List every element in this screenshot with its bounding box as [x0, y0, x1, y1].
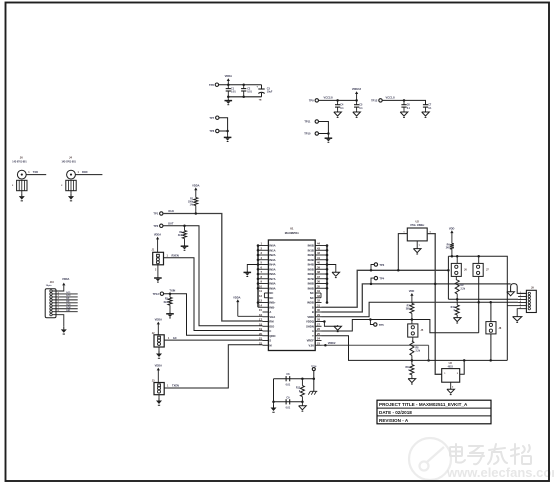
ground J1 — [154, 265, 162, 282]
svg-text:TP3: TP3 — [379, 263, 384, 267]
svg-text:VREF: VREF — [307, 339, 315, 343]
wire U1 pin 25 to R8 bottom row — [322, 336, 508, 362]
U1 right pin 42 IN2B — [308, 251, 327, 257]
jumper J3 — [152, 380, 164, 395]
U1 right pin 32 INOB — [307, 299, 321, 305]
U1 left pin 7 IN6A — [258, 270, 276, 276]
svg-text:IN9B: IN9B — [308, 286, 314, 290]
wire net VCC1.8 right — [382, 96, 425, 105]
svg-text:IN5A: IN5A — [269, 267, 275, 271]
svg-text:IN6B: IN6B — [308, 272, 314, 276]
header connector J10 — [45, 281, 56, 318]
svg-text:IN0A: IN0A — [269, 244, 275, 248]
svg-text:100k: 100k — [188, 202, 194, 204]
header J10 pin 2 — [50, 293, 52, 295]
ground R2 — [184, 244, 186, 246]
ground U1 left bus — [244, 265, 259, 277]
svg-text:IN2A: IN2A — [269, 253, 275, 257]
wire net VCC2.8 left — [319, 96, 358, 102]
jumper J6A — [451, 256, 467, 276]
resistor R1 100k — [188, 198, 198, 214]
power flag VDD R6 — [449, 226, 455, 243]
wire U3 pin 3 up to row — [460, 360, 465, 374]
svg-text:VDDA: VDDA — [155, 364, 162, 368]
svg-text:NC: NC — [310, 296, 314, 300]
svg-text:VDD: VDD — [449, 226, 455, 230]
op IC U1 MAXM2511 body — [268, 226, 315, 350]
U1 right pin 23 V.50 — [309, 341, 322, 347]
power flag VDDA R1 — [192, 183, 199, 197]
svg-text:10: 10 — [259, 284, 262, 288]
ground J3 — [156, 395, 162, 406]
node TP3 junction — [370, 269, 373, 272]
resistor R11 0 — [406, 360, 414, 374]
U1 left pin 8 IN7A — [258, 275, 276, 281]
ground R10 — [453, 315, 461, 323]
svg-text:22: 22 — [259, 341, 262, 345]
svg-text:VGA: VGA — [269, 315, 275, 319]
svg-text:VDDA: VDDA — [155, 318, 162, 322]
U1 right pin 34 NC — [310, 289, 321, 295]
U1 right pin 24 VREF — [307, 337, 322, 343]
svg-text:GS1: GS1 — [66, 310, 71, 312]
capacitor C1 — [226, 85, 237, 97]
resistor R10 0 — [451, 299, 460, 315]
test point TP14 below U1 — [311, 365, 317, 379]
svg-text:VDDQ: VDDQ — [306, 320, 314, 324]
U1 right pin 40 IN4B — [308, 261, 327, 267]
jumper J2 — [152, 332, 164, 347]
svg-text:INOB: INOB — [307, 301, 314, 305]
title block — [377, 400, 491, 424]
wire top jumper row — [447, 255, 507, 360]
U1 left pin 11 NC — [259, 289, 273, 295]
svg-text:IN6A: IN6A — [269, 272, 275, 276]
svg-text:VCC1.8: VCC1.8 — [386, 96, 396, 100]
svg-text:GQ2: GQ2 — [66, 307, 71, 309]
power flag VDDA J1 — [154, 233, 161, 253]
capacitor C6 — [401, 100, 410, 110]
U1 right pin 30 B — [312, 308, 322, 314]
header connector J9 — [518, 287, 536, 313]
svg-text:39: 39 — [317, 265, 320, 269]
svg-text:2.2k: 2.2k — [461, 288, 466, 290]
svg-text:29: 29 — [317, 313, 320, 317]
node TP4 junction — [370, 283, 373, 286]
U1 right pin 31 B — [312, 303, 322, 309]
capacitor C8 — [286, 373, 291, 386]
svg-text:V.50: V.50 — [309, 343, 315, 347]
capacitor C9 — [286, 396, 291, 409]
test point TP8 — [209, 83, 219, 87]
svg-text:NC: NC — [310, 291, 314, 295]
jumper J1 — [152, 248, 164, 271]
svg-text:VDDA: VDDA — [225, 74, 232, 78]
svg-text:IN0B: IN0B — [308, 244, 314, 248]
svg-text:27: 27 — [317, 322, 320, 326]
U1 right pin 36 IN8B — [308, 280, 327, 286]
svg-text:VDDI: VDDI — [307, 315, 314, 319]
capacitor C4 — [335, 100, 344, 110]
wire R9 bottom row to J9 pin 3 — [448, 298, 518, 301]
svg-text:TXIN: TXIN — [169, 288, 175, 292]
header J10 pin 7 — [50, 308, 52, 310]
svg-text:SHDN: SHDN — [306, 324, 314, 328]
ground bottom left — [271, 402, 277, 412]
svg-text:35: 35 — [317, 284, 320, 288]
wire J2 net GC to pin 21 — [164, 336, 262, 340]
U1 left pin 22 M — [259, 341, 272, 347]
svg-text:0.01: 0.01 — [247, 91, 252, 94]
test point TP1 — [153, 212, 163, 216]
U1 left pin 3 IN2A — [258, 251, 276, 257]
test point TP6 — [209, 129, 219, 133]
header J10 pin 5 — [50, 302, 52, 304]
svg-text:VDD: VDD — [409, 289, 415, 293]
svg-text:32: 32 — [317, 299, 320, 303]
svg-text:28: 28 — [317, 318, 320, 322]
power flag VDDA J3 — [155, 364, 162, 383]
svg-text:TP6: TP6 — [209, 129, 214, 133]
wire header J10 net GQ1 — [52, 304, 77, 306]
test point TP4 — [371, 276, 385, 284]
ground U3 — [447, 382, 455, 394]
amplifier U3 — [442, 362, 460, 388]
ground J4 — [68, 191, 74, 201]
test point TP13 — [153, 292, 164, 296]
svg-text:TP13: TP13 — [153, 292, 160, 296]
test point TP7 — [209, 116, 219, 120]
header J10 pin 4 — [50, 299, 52, 301]
ground J9 pin 6 — [513, 309, 522, 323]
svg-text:TP7: TP7 — [209, 116, 214, 120]
svg-text:40: 40 — [317, 261, 320, 265]
svg-text:DATE - 02/2018: DATE - 02/2018 — [379, 410, 412, 415]
header J10 pin 3 — [50, 296, 52, 298]
svg-text:INB-: INB- — [269, 305, 275, 309]
jumper J5 — [408, 320, 424, 338]
U1 right pin 33 NC — [310, 294, 321, 300]
svg-text:NC: NC — [269, 296, 273, 300]
resistor R2 49.9 — [178, 226, 187, 245]
U1 left pin 12 NC — [259, 294, 273, 300]
wire J6 pin 1 net TXD — [26, 170, 46, 175]
power flag VDDA pin16 — [233, 295, 262, 316]
U1 left pin 4 IN3A — [258, 256, 276, 262]
U1 right pin 26 A — [312, 327, 322, 333]
wire U1 pin 28 27 to ground — [322, 320, 342, 331]
svg-text:TXEN: TXEN — [172, 384, 179, 388]
svg-text:17: 17 — [259, 318, 262, 322]
svg-text:VDDA: VDDA — [192, 183, 199, 187]
power flag VDDA — [225, 74, 232, 85]
wire TP8 node — [219, 83, 262, 86]
U1 left pin 15 A — [259, 308, 271, 314]
wire J3 net TXEN to pin 22 — [164, 345, 262, 388]
resistor R3 49.9 — [163, 294, 172, 312]
ground U2 — [413, 241, 421, 254]
svg-text:19: 19 — [259, 327, 262, 331]
svg-text:0.01: 0.01 — [286, 383, 291, 386]
svg-text:16: 16 — [259, 313, 262, 317]
U1 left NC tie pins 11 12 — [263, 293, 265, 298]
ground R11 — [408, 375, 416, 384]
svg-text:TP12: TP12 — [371, 99, 378, 103]
watermark elecfans text — [450, 444, 531, 464]
svg-text:49.9: 49.9 — [178, 234, 183, 237]
wire J9 pin 5 tap — [507, 305, 518, 307]
wire TP11 TP10 to ground — [319, 122, 330, 135]
U1 right pin 38 IN6B — [308, 270, 327, 276]
svg-text:16pin: 16pin — [46, 285, 52, 287]
wire bottom node C1 C2 C3 — [227, 96, 261, 99]
U1 right pin 29 VDDI — [307, 313, 321, 319]
ground header J10 — [52, 315, 67, 334]
svg-text:IN5B: IN5B — [308, 267, 314, 271]
capacitor C5 — [354, 100, 363, 110]
ground U1 right bus — [327, 265, 340, 278]
U1 right NC tie pins 34 33 — [320, 293, 322, 298]
wire U1 pin 30 to TP4 row — [322, 284, 511, 312]
U1 right pin 37 IN7B — [308, 275, 327, 281]
U1 right pin 27 SHDN — [306, 322, 321, 328]
svg-text:A: A — [269, 310, 271, 314]
svg-text:GC2: GC2 — [66, 295, 71, 297]
svg-text:TP5: TP5 — [379, 323, 384, 327]
wire J7 bottom drop — [477, 276, 480, 332]
test point TP3 — [371, 263, 385, 271]
svg-text:1%: 1% — [190, 205, 193, 207]
svg-text:IN8A: IN8A — [269, 282, 275, 286]
resistor R6 240 — [446, 243, 454, 256]
svg-text:/CLK: /CLK — [168, 209, 174, 213]
ground C5 — [356, 111, 358, 112]
svg-text:IN1A: IN1A — [269, 248, 275, 252]
U1 left pin 18 IDO — [259, 322, 274, 328]
wire header J10 net GQ2 — [52, 307, 77, 309]
SMA connector J6 — [12, 156, 27, 191]
svg-text:33: 33 — [317, 294, 320, 298]
U1 right pin 44 IN0B — [308, 242, 327, 248]
svg-text:31: 31 — [317, 303, 320, 307]
svg-text:XTAL 10MHz: XTAL 10MHz — [410, 224, 425, 227]
chassis ground bottom — [308, 379, 317, 395]
svg-text:TP10: TP10 — [304, 132, 311, 136]
U1 right pin 43 IN1B — [308, 246, 327, 252]
U1 left pin 17 RM — [259, 318, 274, 324]
wire header J10 net GS1 — [52, 310, 77, 312]
ground bottom right — [299, 402, 307, 411]
svg-text:VDDA: VDDA — [154, 233, 161, 237]
svg-text:R12: R12 — [296, 388, 301, 390]
resistor R9 2.2k — [455, 276, 465, 299]
U1 right pin 25 T — [312, 332, 321, 338]
svg-text:RXEN: RXEN — [172, 253, 179, 257]
svg-text:14: 14 — [259, 303, 262, 307]
svg-text:PROJECT TITLE - MAXM02511_EVKI: PROJECT TITLE - MAXM02511_EVKIT_A — [379, 402, 468, 407]
wire U1 pin 29 to J9 pin 4 row — [322, 302, 519, 316]
svg-text:IN3A: IN3A — [269, 258, 275, 262]
svg-text:142-0701-801: 142-0701-801 — [12, 161, 27, 164]
wire net OUT to pin 18 — [163, 221, 263, 325]
U1 left pin 21 S — [259, 337, 271, 343]
svg-text:C: C — [269, 329, 271, 333]
power flag VDDA J2 — [155, 318, 162, 335]
header J10 pin 9 — [50, 313, 52, 315]
svg-text:TXD: TXD — [33, 170, 38, 174]
svg-text:IDO: IDO — [269, 324, 274, 328]
wire bottom row 1 — [274, 377, 316, 401]
resistor R8 2.2k — [410, 337, 421, 360]
svg-text:R11: R11 — [406, 367, 411, 369]
svg-text:36: 36 — [317, 280, 320, 284]
wire U2 pin 1 to TP3 net — [397, 234, 407, 272]
svg-text:GC: GC — [173, 336, 177, 340]
svg-text:QDO: QDO — [269, 334, 275, 338]
crystal oscillator U2 — [403, 219, 431, 247]
wire U1 pin 26 row R7 J5 — [322, 318, 479, 333]
svg-text:www.elecfans.com: www.elecfans.com — [446, 465, 554, 480]
test point TP2 — [153, 224, 163, 228]
svg-text:18: 18 — [259, 322, 262, 326]
wire J4 pin 1 net RXD — [75, 170, 102, 175]
svg-text:VCC2.8: VCC2.8 — [324, 96, 334, 100]
svg-text:42: 42 — [317, 251, 320, 255]
test point TP10 — [304, 132, 318, 136]
U1 left pin 6 IN5A — [258, 265, 276, 271]
svg-text:TP2: TP2 — [153, 224, 158, 228]
ground C4 — [337, 111, 339, 112]
svg-text:0.01: 0.01 — [286, 407, 291, 410]
SMA connector J4 — [61, 156, 76, 191]
svg-text:IN7A: IN7A — [269, 277, 275, 281]
ground J2 — [156, 347, 162, 358]
svg-text:TP1: TP1 — [153, 212, 158, 216]
svg-text:IN7B: IN7B — [308, 277, 314, 281]
ground top circuit — [225, 97, 233, 105]
svg-text:23: 23 — [317, 341, 320, 345]
svg-text:R10: R10 — [451, 307, 456, 309]
wire net /CLK to pin 17 — [163, 209, 263, 321]
svg-text:TP8: TP8 — [209, 83, 214, 87]
svg-text:IN9A: IN9A — [269, 286, 275, 290]
wire VDD/2 drop — [428, 345, 430, 360]
svg-text:34: 34 — [317, 289, 320, 293]
svg-text:IN4A: IN4A — [269, 263, 275, 267]
power flag VDD2.8 — [352, 87, 362, 100]
svg-text:A: A — [312, 329, 314, 333]
svg-text:IN3B: IN3B — [308, 258, 314, 262]
svg-text:41: 41 — [317, 256, 320, 260]
svg-text:GQ1: GQ1 — [66, 304, 71, 306]
svg-text:20: 20 — [259, 332, 262, 336]
svg-text:OUT: OUT — [168, 221, 174, 225]
svg-text:U1: U1 — [290, 226, 294, 230]
svg-text:44: 44 — [317, 242, 320, 246]
ground C6 — [403, 111, 405, 112]
U1 left pin 19 C — [259, 327, 271, 333]
U1 left pin 2 IN1A — [258, 246, 276, 252]
wire U2 pin 5 to TP4 net and U3 — [427, 234, 442, 375]
svg-text:J10: J10 — [50, 281, 55, 284]
svg-text:U2: U2 — [416, 219, 420, 223]
jumper J8 — [486, 301, 502, 360]
resistor R12 0 — [296, 379, 305, 402]
U1 right pin 28 VDDQ — [306, 318, 321, 324]
svg-text:13: 13 — [259, 299, 262, 303]
header J10 pin 8 — [50, 311, 52, 313]
wire bottom row 2 — [272, 401, 303, 404]
test point TP11 — [304, 120, 318, 124]
svg-text:IN4B: IN4B — [308, 263, 314, 267]
ground R3 — [169, 312, 171, 314]
ground TP11 TP10 — [325, 134, 333, 143]
svg-text:24: 24 — [317, 337, 320, 341]
wire header J10 net GI1 — [52, 297, 77, 300]
wire header J10 net GC2 — [52, 295, 77, 297]
wire J1 net RXEN to pin 19 — [163, 253, 262, 330]
wire J9 pin 1 hook ground — [507, 284, 527, 296]
svg-text:IN2B: IN2B — [308, 253, 314, 257]
test point TP5 — [370, 320, 384, 327]
test point TP9 — [309, 99, 319, 103]
svg-text:VDDA: VDDA — [233, 295, 240, 299]
test point TP12 — [371, 99, 382, 103]
svg-text:30: 30 — [317, 308, 320, 312]
U1 left pin 5 IN4A — [258, 261, 276, 267]
U1 left pin 16 VGA — [259, 313, 275, 319]
ground J6 — [19, 191, 25, 201]
svg-text:142-0701-801: 142-0701-801 — [62, 161, 77, 164]
U1 left pin 10 IN9A — [258, 284, 276, 290]
U1 left pin 20 QDO — [259, 332, 276, 338]
svg-text:TP11: TP11 — [304, 120, 311, 124]
svg-text:VDD/2: VDD/2 — [328, 341, 336, 345]
power flag VDDA header — [52, 277, 69, 291]
svg-text:38: 38 — [317, 270, 320, 274]
svg-text:21: 21 — [259, 337, 262, 341]
svg-text:43: 43 — [317, 246, 320, 250]
svg-text:IN1B: IN1B — [308, 248, 314, 252]
svg-text:15: 15 — [259, 308, 262, 312]
svg-text:INB+: INB+ — [269, 301, 276, 305]
U1 right pin 39 IN5B — [308, 265, 327, 271]
svg-text:TP9: TP9 — [309, 99, 314, 103]
svg-text:37: 37 — [317, 275, 320, 279]
svg-text:REVISION - A: REVISION - A — [379, 418, 409, 423]
header J10 pin 6 — [50, 305, 52, 307]
svg-text:0.01: 0.01 — [231, 91, 236, 94]
svg-text:S: S — [269, 339, 271, 343]
svg-text:RXD: RXD — [82, 170, 88, 174]
svg-text:B: B — [312, 310, 314, 314]
wire TP7 TP6 to ground — [219, 118, 229, 133]
capacitor C2 — [241, 85, 252, 97]
svg-text:2.2k: 2.2k — [416, 351, 421, 353]
svg-text:TP4: TP4 — [379, 276, 384, 280]
svg-text:MAXM2511: MAXM2511 — [285, 231, 300, 235]
wire net TXIN to pin 20 — [164, 288, 263, 335]
U1 right pin 41 IN3B — [308, 256, 327, 262]
svg-text:12: 12 — [259, 294, 262, 298]
capacitor C3 polarized 10uF — [256, 85, 273, 102]
ground TP7 TP6 — [224, 131, 232, 142]
U1 left pin 9 IN8A — [258, 280, 276, 286]
resistor R7 390 — [406, 303, 414, 319]
svg-text:10uF: 10uF — [267, 91, 273, 94]
capacitor C7 — [423, 104, 432, 111]
U1 left pin 14 INB- — [258, 303, 275, 309]
